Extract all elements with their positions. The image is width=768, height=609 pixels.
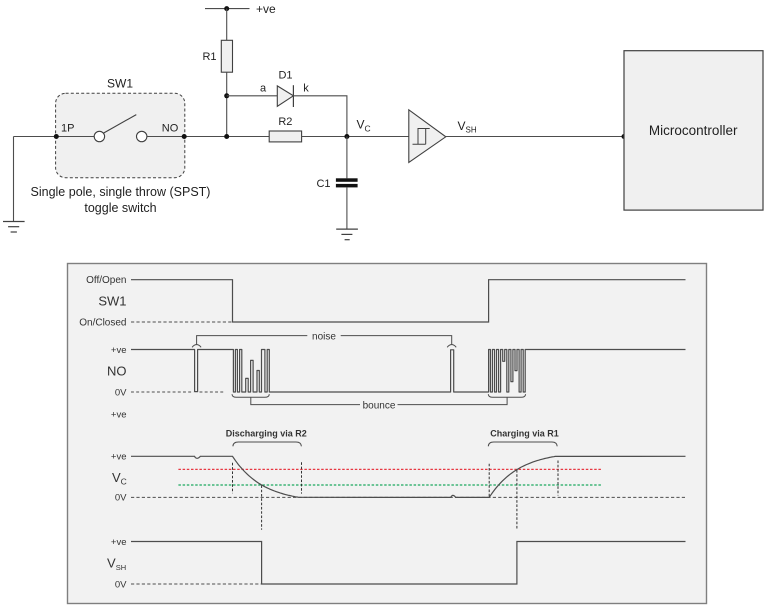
svg-text:+ve: +ve (111, 345, 127, 356)
switch pole contact (94, 131, 104, 141)
node diode branch junction (224, 93, 229, 98)
node 1P (54, 134, 59, 139)
guide lower threshold crossing (261, 485, 263, 529)
upper threshold dashed red (178, 468, 601, 470)
wire (14, 136, 95, 138)
resistor R1 (221, 40, 232, 72)
wire (13, 137, 15, 222)
svg-text:k: k (303, 83, 309, 95)
svg-text:0V: 0V (115, 493, 127, 504)
guide upper threshold crossing (516, 470, 518, 529)
svg-text:R1: R1 (202, 51, 216, 63)
svg-text:noise: noise (312, 331, 336, 342)
op-amp U1 schmitt trigger (409, 110, 446, 163)
ground below C1 (336, 229, 358, 240)
svg-text:D1: D1 (278, 70, 292, 82)
VSH 0V reference dashed (131, 583, 262, 585)
svg-text:NO: NO (107, 364, 127, 379)
capacitor C1 (316, 178, 357, 190)
microcontroller box (624, 51, 763, 210)
svg-text:Single pole, single throw (SPS: Single pole, single throw (SPST) (31, 185, 211, 199)
svg-text:SW1: SW1 (98, 294, 126, 309)
bounce annotation braces and label (232, 394, 269, 397)
lower threshold dashed green (178, 484, 601, 486)
VC waveform trace (131, 456, 686, 497)
svg-text:SH: SH (466, 126, 477, 135)
svg-text:SW1: SW1 (107, 77, 133, 91)
svg-text:0V: 0V (115, 579, 127, 590)
wire (227, 95, 278, 97)
wire (205, 8, 250, 10)
VSH waveform trace (131, 542, 686, 585)
wire (302, 136, 409, 138)
svg-text:+ve: +ve (111, 452, 127, 463)
svg-text:Charging via R1: Charging via R1 (490, 429, 559, 439)
svg-text:Discharging via R2: Discharging via R2 (226, 429, 307, 439)
ground left (3, 222, 25, 233)
svg-text:+ve: +ve (111, 409, 127, 420)
svg-text:0V: 0V (115, 387, 127, 398)
VC 0V reference dashed (131, 496, 686, 498)
guide charge end (557, 461, 559, 496)
svg-text:+ve: +ve (256, 2, 276, 16)
svg-text:C: C (365, 124, 371, 134)
svg-text:+ve: +ve (111, 537, 127, 548)
NO waveform trace with bounce (131, 350, 686, 393)
wire (446, 136, 624, 138)
node R1 bottom junction (224, 134, 229, 139)
noise annotation pointers and label (192, 345, 201, 348)
switch lever (104, 115, 137, 133)
svg-text:V: V (107, 556, 116, 571)
svg-text:a: a (260, 83, 267, 95)
timing diagram panel (68, 264, 707, 604)
svg-text:R2: R2 (278, 116, 292, 128)
wire (226, 72, 228, 136)
switch SW1 enclosure (56, 93, 185, 177)
wire (346, 137, 348, 179)
resistor R2 (269, 131, 301, 142)
NO 0V reference dashed (131, 391, 224, 393)
wire (147, 136, 269, 138)
node microcontroller input (622, 134, 627, 139)
svg-text:C1: C1 (316, 178, 330, 190)
svg-text:C: C (121, 477, 127, 487)
wire (226, 9, 228, 41)
svg-text:bounce: bounce (363, 400, 396, 411)
SW1 waveform trace (131, 280, 686, 322)
node +ve rail junction (224, 6, 229, 11)
svg-text:toggle switch: toggle switch (84, 201, 156, 215)
svg-text:Off/Open: Off/Open (86, 275, 126, 286)
svg-text:1P: 1P (61, 123, 74, 135)
svg-text:V: V (458, 119, 466, 133)
SW1 on/closed reference dashed (131, 321, 233, 323)
node NO (182, 134, 187, 139)
wire (346, 187, 348, 229)
guide discharge start (232, 463, 234, 494)
guide charge start (488, 464, 490, 497)
svg-text:Microcontroller: Microcontroller (649, 123, 738, 138)
svg-text:V: V (357, 118, 365, 132)
svg-text:On/Closed: On/Closed (79, 317, 126, 328)
wire (293, 96, 347, 137)
guide discharge end (301, 462, 303, 493)
svg-text:SH: SH (116, 563, 126, 572)
svg-text:NO: NO (162, 123, 179, 135)
diode D1 (277, 70, 293, 108)
node Vc (344, 134, 349, 139)
switch throw contact (137, 131, 147, 141)
